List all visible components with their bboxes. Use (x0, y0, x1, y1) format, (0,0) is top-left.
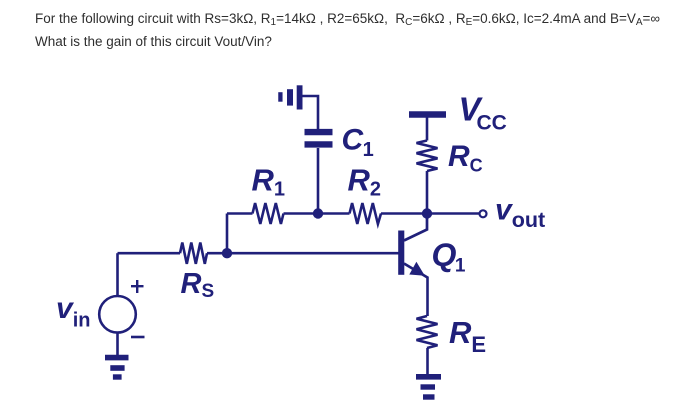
wire base horizontal Rs to Q1 base (207, 252, 399, 255)
svg-text:R2: R2 (348, 163, 382, 201)
resistor Rs zigzag (180, 243, 207, 264)
wire Vcc bar to Rc top (426, 118, 429, 141)
transistor Q1 base bar (398, 231, 404, 275)
wire C1 bottom to mid rail (317, 148, 320, 214)
svg-text:vout: vout (495, 194, 545, 232)
node A junction dot (Rs / R1 / base) (222, 248, 232, 258)
wire emitter vertical to RE (426, 277, 429, 317)
vout open terminal circle (480, 210, 487, 217)
resistor Rc zigzag (417, 141, 438, 172)
wire node to mid rail vertical (226, 214, 229, 254)
sideways ground at C1 top (280, 85, 299, 109)
transistor Q1 emitter arrow (409, 262, 425, 276)
wire collector node to vout terminal (427, 212, 479, 215)
capacitor C1 plates (305, 132, 333, 144)
wire mid rail left segment (227, 212, 253, 215)
svg-text:VCC: VCC (459, 91, 507, 135)
svg-text:vin: vin (56, 292, 90, 332)
wire C1 top to corner and to sideways ground (303, 96, 319, 129)
wire RE bottom to ground (426, 348, 429, 375)
wire Rc bottom to collector node (426, 171, 429, 214)
ground below Vin (105, 358, 129, 377)
svg-text:RC: RC (448, 140, 483, 176)
question text line 2 (35, 34, 272, 49)
svg-text:RE: RE (449, 315, 486, 357)
resistor R2 zigzag (350, 203, 382, 224)
node C junction dot (collector / Rc / vout) (422, 208, 432, 218)
transistor Q1 collector line (404, 214, 427, 241)
wire base horizontal left of Rs (118, 252, 181, 255)
svg-text:R1: R1 (252, 163, 286, 201)
wire Vin bottom to ground (116, 333, 119, 357)
wire mid rail between R1 and R2 (284, 212, 350, 215)
Vcc supply bar (409, 111, 446, 118)
resistor RE zigzag (417, 316, 438, 348)
ground below RE (416, 377, 441, 397)
svg-text:Q1: Q1 (432, 237, 466, 277)
node B junction dot (R1 / R2 / C1) (313, 208, 323, 218)
transistor Q1 emitter line (404, 264, 428, 278)
svg-text:RS: RS (181, 268, 215, 302)
question text line 1 (35, 11, 660, 26)
svg-text:C1: C1 (342, 123, 374, 161)
voltage source Vin circle (99, 296, 136, 333)
minus sign of Vin (131, 336, 145, 339)
plus sign of Vin (131, 280, 144, 293)
resistor R1 zigzag (253, 203, 284, 224)
wire mid rail between R2 and collector node (381, 212, 427, 215)
wire left vertical to Vin (116, 253, 119, 296)
